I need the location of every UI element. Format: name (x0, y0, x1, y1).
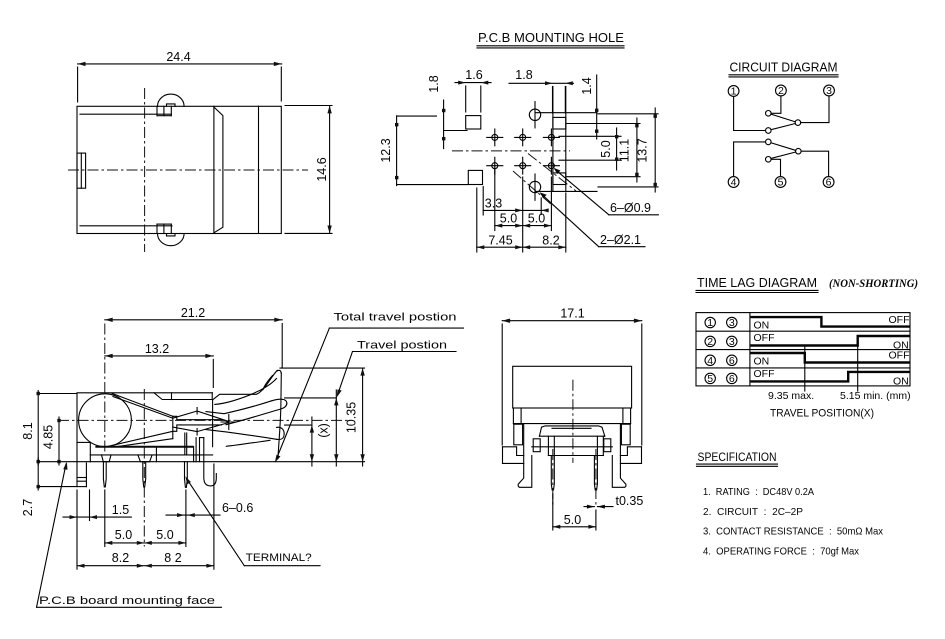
dimension 11.1 (567, 118, 640, 182)
svg-text:SPECIFICATION: SPECIFICATION (698, 452, 777, 464)
dimension 2.7 (21, 458, 40, 516)
wire pin5 to contact F (771, 159, 780, 176)
svg-text:TERMINAL?: TERMINAL? (246, 552, 312, 564)
svg-text:6: 6 (729, 373, 735, 385)
svg-text:3: 3 (729, 336, 735, 348)
svg-text:2. CIRCUIT : 2C–2P: 2. CIRCUIT : 2C–2P (703, 506, 803, 518)
svg-text:13.7: 13.7 (636, 138, 650, 162)
svg-text:(x): (x) (317, 423, 331, 438)
pin collar 2 (138, 455, 152, 462)
terminal pin right (front) (594, 456, 597, 491)
svg-text:OFF: OFF (889, 314, 910, 326)
pin collar 1 (102, 455, 112, 462)
centerline vertical (144, 88, 146, 252)
pin 6 (823, 177, 834, 189)
waveform row 3 (750, 350, 909, 368)
dimension 1.4 (580, 75, 598, 139)
dimensions 5.0 / 5.0 (pins) (105, 490, 186, 547)
svg-text:2–Ø2.1: 2–Ø2.1 (600, 233, 641, 247)
dimension 5.0 (right vertical) (559, 128, 621, 170)
dimension 24.4 (78, 50, 282, 102)
dimension 10.35 (345, 368, 365, 466)
svg-text:1. RATING : DC48V 0.2A: 1. RATING : DC48V 0.2A (703, 486, 814, 498)
waveform row 4 (750, 368, 909, 388)
title P.C.B MOUNTING HOLE (477, 30, 624, 48)
svg-text:2: 2 (707, 336, 713, 348)
pin 2 (776, 85, 787, 97)
svg-text:OFF: OFF (889, 350, 910, 362)
centerline diagonal A (528, 154, 576, 192)
dimensions 5.0 / 5.0 (bottom) (495, 169, 552, 231)
svg-text:1.4: 1.4 (580, 77, 594, 94)
switch body outline (top view) (77, 106, 281, 233)
dimension 4.85 (42, 417, 61, 465)
svg-text:ON: ON (754, 356, 770, 368)
main centerline (58, 419, 348, 421)
centerline horizontal (68, 169, 308, 171)
terminal block (548, 436, 603, 455)
right mounting leg (612, 424, 626, 487)
pin 4 (728, 177, 739, 189)
terminal pin left (front) (551, 456, 554, 491)
svg-text:5: 5 (707, 373, 713, 385)
svg-text:4.85: 4.85 (42, 425, 56, 449)
dimension 13.7 (598, 108, 658, 192)
row labels 2-3 (705, 336, 737, 348)
top mounting ear (157, 94, 184, 116)
svg-text:OFF: OFF (754, 332, 775, 344)
left bracket outline (397, 116, 468, 185)
center line (572, 380, 574, 463)
svg-text:8.2: 8.2 (112, 551, 129, 565)
svg-text:6: 6 (729, 355, 735, 367)
svg-text:10.35: 10.35 (345, 402, 359, 433)
title CIRCUIT DIAGRAM (729, 61, 838, 77)
svg-text:12.3: 12.3 (379, 138, 393, 162)
travel position line (334, 390, 338, 466)
dimension 1.8 (left vertical) (427, 75, 445, 148)
svg-text:OFF: OFF (754, 368, 775, 380)
svg-text:17.1: 17.1 (560, 307, 584, 321)
svg-text:9.35 max.: 9.35 max. (768, 390, 814, 402)
dimension 12.3 (379, 116, 398, 186)
row labels 4-6 (705, 355, 737, 367)
terminal pin 3 (side) (185, 462, 188, 488)
svg-text:5: 5 (778, 177, 784, 189)
base flange (503, 447, 642, 464)
leader 2-O2.1 (540, 192, 646, 247)
contact C (766, 128, 772, 134)
right bracket outline (536, 87, 597, 192)
plunger guide (539, 426, 604, 436)
two 2.1mm holes (529, 102, 540, 201)
contact F (766, 157, 772, 163)
spring cone upper (112, 393, 173, 416)
dimension (x) (310, 417, 331, 466)
right square holes (553, 117, 566, 129)
wire pin2 to contact A (771, 96, 781, 113)
left mounting leg (518, 424, 532, 487)
leg upper plates (514, 424, 630, 445)
svg-text:Total travel postion: Total travel postion (334, 312, 457, 324)
contact B (common, upper pole) (795, 120, 801, 126)
left side tab (77, 153, 86, 188)
pin 3 roots (185, 433, 187, 455)
svg-text:2.7: 2.7 (21, 499, 35, 516)
svg-text:CIRCUIT DIAGRAM: CIRCUIT DIAGRAM (730, 61, 838, 75)
svg-text:5.0: 5.0 (115, 528, 132, 542)
wire pin4 to contact D (734, 142, 766, 177)
svg-text:t0.35: t0.35 (616, 494, 644, 508)
centerline diagonal B (513, 171, 553, 206)
svg-text:21.2: 21.2 (181, 306, 205, 320)
roller (79, 394, 132, 447)
pin 1 (728, 86, 739, 98)
side bracket (left) (77, 394, 90, 487)
svg-text:P.C.B board mounting face: P.C.B board mounting face (39, 595, 215, 607)
svg-text:ON: ON (754, 320, 770, 332)
pin centerlines (552, 449, 554, 506)
dimensions 7.45 / 8.2 (bottom) (477, 177, 566, 252)
travel guide line 2 (5.15) (857, 336, 859, 391)
rear bracket (196, 438, 216, 486)
base mould line (90, 454, 212, 456)
roller centerline vertical / pin1 centerline (104, 324, 106, 454)
svg-text:6–Ø0.9: 6–Ø0.9 (610, 201, 651, 215)
dimension 1.5 (63, 490, 131, 521)
waveform row 2 (750, 332, 909, 352)
right extension lines (travel positions) (90, 368, 364, 462)
svg-text:Travel postion: Travel postion (357, 340, 447, 352)
svg-text:1: 1 (731, 86, 737, 98)
cone tip (173, 416, 181, 438)
dimensions 8.2 / 8.2 (77, 464, 214, 569)
svg-text:1: 1 (707, 317, 713, 329)
dimension t0.35 (584, 494, 643, 509)
title TIME LAG DIAGRAM (696, 275, 918, 293)
table frame (696, 313, 910, 386)
case (front view) (513, 366, 632, 408)
svg-text:5.15 min. (mm): 5.15 min. (mm) (840, 390, 911, 402)
left extension lines (38, 394, 90, 487)
moulding ribs (533, 439, 611, 452)
dimension 6-0.6 (166, 501, 253, 517)
svg-text:8.2: 8.2 (542, 233, 559, 247)
shoulder strip (513, 408, 630, 424)
dimension 1.8 (top middle) (509, 68, 573, 113)
contact E (common, lower pole) (796, 148, 802, 154)
dimension 17.1 (502, 307, 642, 446)
svg-text:4: 4 (707, 355, 713, 367)
svg-text:8 2: 8 2 (164, 551, 181, 565)
svg-text:3.3: 3.3 (485, 197, 502, 211)
svg-text:3: 3 (826, 85, 832, 97)
pin 3 (824, 85, 835, 97)
svg-text:8.1: 8.1 (21, 422, 35, 439)
svg-text:P.C.B MOUNTING HOLE: P.C.B MOUNTING HOLE (478, 30, 624, 45)
svg-text:5.0: 5.0 (500, 212, 517, 226)
label TERMINAL? (185, 476, 320, 566)
svg-text:ON: ON (893, 376, 909, 388)
centerline horizontal (452, 150, 570, 152)
svg-text:11.1: 11.1 (618, 139, 632, 162)
lever free position (213, 370, 281, 458)
waveform row 1 (750, 314, 909, 332)
dimension 8.1 (21, 391, 40, 466)
title SPECIFICATION (697, 452, 778, 466)
dimension 14.6 (285, 106, 332, 234)
wire pin3 to contact B (801, 96, 829, 123)
pin2 centerline (143, 389, 145, 547)
dimension 13.2 (105, 342, 214, 388)
svg-text:3. CONTACT RESISTANCE : 50m: 3. CONTACT RESISTANCE : 50mΩ Max (703, 526, 884, 538)
svg-text:5.0: 5.0 (528, 212, 545, 226)
terminal pin 2 (side) (143, 462, 146, 487)
axis labels (768, 390, 911, 420)
svg-text:13.2: 13.2 (145, 342, 169, 356)
terminal block (156, 447, 193, 462)
svg-text:4: 4 (731, 177, 737, 189)
label Travel postion (337, 340, 456, 398)
lever pivot (221, 415, 237, 430)
cavity bottom (95, 446, 193, 448)
label P.C.B board mounting face (37, 462, 222, 608)
pin 5 (775, 177, 786, 189)
moving blade F-E (771, 152, 796, 158)
moving blade D-E (771, 143, 796, 151)
lever mid position (206, 399, 287, 425)
spring cone lower (108, 431, 173, 446)
wire pin1 to contact C (734, 96, 766, 130)
dimension 5.0 (pin pitch) (553, 494, 596, 530)
lever pressed position (206, 427, 284, 446)
svg-text:TRAVEL POSITION(X): TRAVEL POSITION(X) (770, 408, 874, 420)
dimension 1.6 (455, 68, 491, 112)
wire pin6 to contact E (801, 151, 829, 176)
svg-text:5.0: 5.0 (156, 528, 173, 542)
svg-text:3: 3 (729, 317, 735, 329)
svg-text:14.6: 14.6 (315, 157, 329, 181)
moving blade C-B (771, 124, 795, 130)
svg-text:5.0: 5.0 (599, 140, 613, 157)
svg-text:24.4: 24.4 (166, 50, 190, 64)
svg-text:TIME LAG DIAGRAM: TIME LAG DIAGRAM (697, 275, 817, 290)
svg-text:6: 6 (826, 177, 832, 189)
svg-text:1.5: 1.5 (112, 503, 129, 517)
svg-text:1.8: 1.8 (515, 68, 532, 82)
spring arms (bowtie) (173, 408, 229, 436)
svg-text:5.0: 5.0 (564, 513, 581, 527)
svg-text:1.6: 1.6 (465, 68, 482, 82)
leader 6-O0.9 (554, 168, 659, 215)
terminal pin 1 (side) (103, 462, 106, 487)
bottom mounting ear (157, 224, 184, 246)
dimension 21.2 (105, 306, 282, 368)
dimension 3.3 (483, 187, 549, 216)
travel guide line 1 (9.35) (804, 347, 806, 391)
label Total travel postion (275, 312, 464, 463)
moving blade A-B (771, 114, 795, 122)
left square holes (466, 116, 481, 129)
svg-text:2: 2 (778, 85, 784, 97)
contact D (766, 139, 772, 145)
plunger rod (181, 420, 222, 425)
svg-text:1.8: 1.8 (427, 75, 441, 92)
svg-text:7.45: 7.45 (488, 233, 512, 247)
svg-text:(NON-SHORTING): (NON-SHORTING) (829, 276, 918, 290)
contact A (766, 111, 772, 117)
row labels 1-3 (705, 317, 737, 329)
case top outline (77, 393, 213, 447)
row labels 5-6 (705, 373, 737, 385)
svg-text:4. OPERATING FORCE : 70gf M: 4. OPERATING FORCE : 70gf Max (703, 546, 860, 558)
hole pattern: six 0.9mm holes with crosshairs (487, 129, 560, 174)
svg-text:6–0.6: 6–0.6 (222, 501, 253, 515)
